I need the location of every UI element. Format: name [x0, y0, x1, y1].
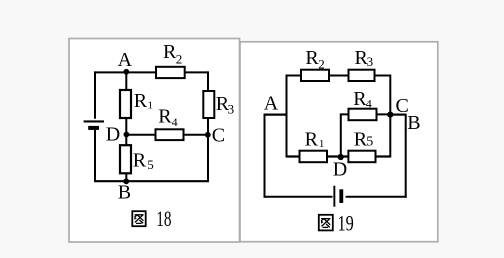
label R5 (fig19) [354, 129, 374, 151]
svg-text:C: C [212, 124, 225, 146]
svg-text:5: 5 [147, 157, 154, 172]
wire bottom branch R1 R5 [287, 155, 391, 157]
svg-text:3: 3 [228, 102, 235, 117]
resistor R5 (fig19) [348, 151, 375, 163]
label R3 (fig19) [355, 47, 374, 69]
wire outer right bus [405, 114, 407, 198]
wire battery row [265, 196, 407, 198]
resistor R5 (fig18) [120, 145, 131, 173]
wire middle vertical A to B [125, 72, 127, 181]
wire right bus [207, 71, 209, 182]
svg-text:A: A [264, 93, 279, 115]
battery (fig19) [333, 186, 343, 207]
wire outer left bus [264, 114, 266, 198]
svg-text:4: 4 [366, 97, 372, 111]
node C (fig18) [205, 132, 211, 138]
wire top row A [95, 71, 208, 73]
resistor R3 (fig18) [203, 91, 214, 118]
wire D to C [126, 134, 208, 136]
wire inner right bus [389, 75, 391, 158]
svg-text:18: 18 [156, 206, 171, 231]
caption glyph tu (fig18) [132, 211, 145, 226]
svg-text:D: D [333, 159, 347, 181]
svg-text:R: R [134, 90, 148, 112]
node C (fig19) [387, 112, 393, 118]
label R1 (fig19) [305, 129, 325, 151]
wire A stub [264, 113, 287, 115]
svg-text:2: 2 [176, 52, 183, 67]
svg-text:R: R [133, 149, 147, 171]
panel figure 18 [69, 39, 240, 243]
svg-text:3: 3 [367, 54, 374, 69]
resistor R4 (fig19) [349, 109, 377, 121]
label R5 (fig18) [133, 149, 154, 172]
wire bottom row B [94, 180, 209, 182]
svg-text:B: B [118, 182, 131, 204]
wire top branch [287, 75, 391, 77]
resistor R1 (fig18) [120, 90, 131, 118]
wire inner left bus [286, 75, 288, 158]
label R4 (fig18) [158, 106, 177, 129]
svg-text:5: 5 [366, 134, 373, 149]
resistor R2 (fig19) [301, 70, 329, 81]
wire mid vertical C4 to D [340, 113, 342, 157]
wire C stub [390, 113, 405, 115]
svg-text:R: R [305, 129, 319, 151]
resistor R4 (fig18) [156, 129, 184, 140]
node A (fig18) [123, 69, 129, 75]
battery (fig18) [84, 120, 104, 129]
resistor R3 (fig19) [349, 70, 375, 81]
label R1 (fig18) [134, 90, 153, 112]
label R2 (fig18) [163, 41, 182, 67]
svg-text:2: 2 [318, 57, 325, 72]
resistor R1 (fig19) [300, 151, 328, 163]
svg-text:4: 4 [172, 115, 178, 129]
svg-text:1: 1 [148, 100, 154, 112]
svg-text:B: B [407, 112, 420, 134]
label R3 (fig18) [216, 93, 234, 117]
svg-text:R: R [305, 47, 319, 69]
node D (fig19) [338, 154, 344, 160]
svg-text:1: 1 [319, 138, 325, 150]
wire R4 branch [341, 113, 391, 115]
caption glyph tu (fig19) [319, 215, 333, 231]
svg-text:A: A [118, 49, 133, 71]
panel figure 19 [240, 42, 438, 242]
svg-text:D: D [106, 124, 120, 146]
label R2 (fig19) [305, 47, 324, 72]
svg-text:R: R [158, 106, 172, 128]
svg-text:19: 19 [338, 211, 354, 236]
wire left bus [94, 71, 96, 182]
label R4 (fig19) [353, 88, 372, 111]
node B (fig18) [123, 178, 129, 184]
node D (fig18) [124, 132, 130, 138]
resistor R2 (fig18) [156, 67, 185, 78]
